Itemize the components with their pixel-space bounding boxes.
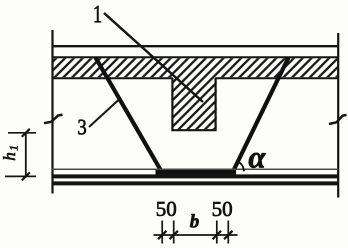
svg-text:h1: h1: [0, 145, 20, 161]
svg-text:50: 50: [156, 197, 177, 221]
svg-text:50: 50: [212, 197, 233, 221]
svg-text:3: 3: [77, 116, 86, 140]
svg-text:α: α: [248, 140, 266, 175]
svg-text:b: b: [190, 211, 200, 232]
svg-text:1: 1: [93, 0, 102, 28]
